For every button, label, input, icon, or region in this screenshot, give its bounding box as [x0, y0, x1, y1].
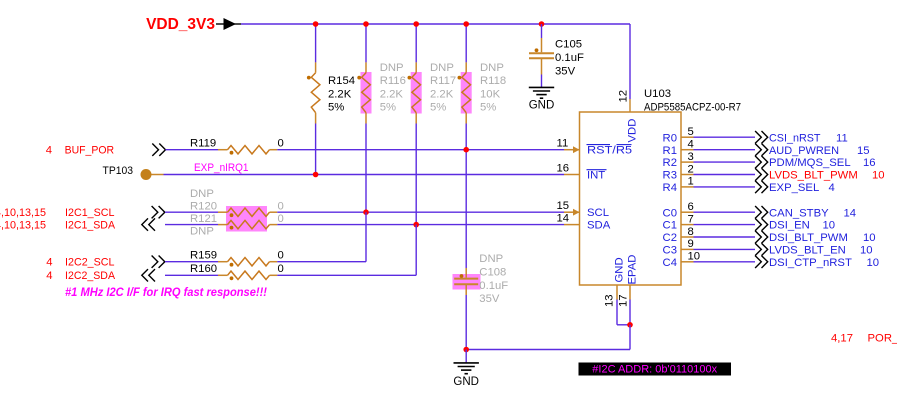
- svg-text:0: 0: [278, 213, 284, 225]
- svg-text:GND: GND: [529, 99, 555, 111]
- svg-text:BUF_POR: BUF_POR: [65, 145, 115, 157]
- svg-text:10: 10: [688, 251, 701, 263]
- svg-text:RST/R5: RST/R5: [587, 144, 632, 156]
- svg-text:C1: C1: [663, 220, 677, 232]
- svg-text:10: 10: [867, 257, 880, 269]
- svg-text:C0: C0: [663, 207, 677, 219]
- svg-text:#I2C ADDR: 0b'0110100x: #I2C ADDR: 0b'0110100x: [592, 364, 717, 376]
- svg-text:5%: 5%: [480, 102, 496, 114]
- svg-text:5: 5: [688, 126, 694, 138]
- svg-text:R117: R117: [430, 75, 456, 87]
- svg-text:35V: 35V: [555, 65, 576, 77]
- svg-text:11: 11: [557, 138, 569, 150]
- svg-text:R119: R119: [190, 137, 216, 149]
- svg-text:15: 15: [557, 200, 570, 212]
- svg-text:10K: 10K: [480, 88, 501, 100]
- svg-text:DSI_EN: DSI_EN: [769, 220, 810, 232]
- svg-text:I2C1_SCL: I2C1_SCL: [65, 207, 115, 219]
- svg-text:ADP5585ACPZ-00-R7: ADP5585ACPZ-00-R7: [644, 101, 741, 113]
- svg-text:POR_B: POR_B: [868, 333, 897, 345]
- svg-text:2.2K: 2.2K: [328, 88, 352, 100]
- svg-text:EXP_SEL: EXP_SEL: [769, 182, 819, 194]
- svg-text:4: 4: [46, 257, 52, 269]
- svg-text:VDD: VDD: [627, 119, 639, 143]
- svg-text:DNP: DNP: [479, 253, 503, 265]
- svg-text:4: 4: [688, 139, 694, 151]
- svg-text:I2C2_SDA: I2C2_SDA: [65, 270, 115, 282]
- svg-text:4,10,13,15: 4,10,13,15: [0, 207, 46, 219]
- svg-text:14: 14: [844, 207, 857, 219]
- svg-text:R0: R0: [663, 132, 677, 144]
- svg-text:INT: INT: [587, 169, 605, 181]
- svg-text:DNP: DNP: [190, 225, 214, 237]
- svg-text:C2: C2: [663, 232, 677, 244]
- svg-text:13: 13: [604, 294, 616, 307]
- svg-text:4: 4: [829, 182, 835, 194]
- svg-text:DSI_CTP_nRST: DSI_CTP_nRST: [769, 257, 852, 269]
- svg-text:2.2K: 2.2K: [380, 88, 404, 100]
- svg-text:R2: R2: [663, 157, 677, 169]
- svg-text:GND: GND: [453, 376, 479, 388]
- svg-text:8: 8: [688, 226, 694, 238]
- svg-text:C108: C108: [479, 267, 506, 279]
- svg-text:PDM/MQS_SEL: PDM/MQS_SEL: [769, 157, 851, 169]
- svg-text:16: 16: [863, 157, 876, 169]
- svg-text:0.1uF: 0.1uF: [555, 52, 584, 64]
- svg-text:R4: R4: [663, 182, 677, 194]
- svg-text:R120: R120: [190, 201, 217, 213]
- svg-text:17: 17: [618, 294, 630, 307]
- svg-text:0: 0: [278, 201, 284, 213]
- svg-text:LVDS_BLT_PWM: LVDS_BLT_PWM: [769, 170, 858, 182]
- svg-text:10: 10: [860, 245, 873, 257]
- svg-text:TP103: TP103: [103, 165, 134, 177]
- svg-text:DNP: DNP: [190, 188, 214, 200]
- svg-text:0: 0: [278, 263, 284, 275]
- svg-text:12: 12: [618, 90, 630, 103]
- svg-text:I2C1_SDA: I2C1_SDA: [65, 219, 115, 231]
- svg-text:R160: R160: [190, 263, 217, 275]
- svg-text:0: 0: [278, 137, 284, 149]
- svg-text:VDD_3V3: VDD_3V3: [146, 16, 215, 33]
- svg-text:2: 2: [688, 163, 694, 175]
- svg-text:SCL: SCL: [587, 207, 609, 219]
- svg-text:R121: R121: [190, 213, 217, 225]
- svg-text:#1 MHz I2C I/F for IRQ fast re: #1 MHz I2C I/F for IRQ fast response!!!: [65, 287, 267, 299]
- svg-text:0: 0: [278, 249, 284, 261]
- svg-text:DNP: DNP: [480, 62, 504, 74]
- svg-text:4,10,13,15: 4,10,13,15: [0, 219, 46, 231]
- svg-text:10: 10: [823, 220, 836, 232]
- svg-text:0.1uF: 0.1uF: [479, 280, 508, 292]
- svg-text:2.2K: 2.2K: [430, 88, 454, 100]
- svg-text:5%: 5%: [380, 102, 396, 114]
- svg-text:CSI_nRST: CSI_nRST: [769, 132, 821, 144]
- svg-text:DNP: DNP: [380, 62, 404, 74]
- svg-text:C3: C3: [663, 245, 677, 257]
- svg-text:C4: C4: [663, 257, 677, 269]
- svg-text:GND: GND: [614, 257, 626, 282]
- svg-text:R159: R159: [190, 249, 217, 261]
- svg-text:6: 6: [688, 201, 694, 213]
- svg-text:DSI_BLT_PWM: DSI_BLT_PWM: [769, 232, 848, 244]
- svg-text:10: 10: [872, 170, 885, 182]
- svg-text:R118: R118: [480, 75, 506, 87]
- svg-text:AUD_PWREN: AUD_PWREN: [769, 145, 839, 157]
- svg-text:15: 15: [857, 145, 870, 157]
- svg-text:4,17: 4,17: [831, 333, 853, 345]
- svg-text:14: 14: [557, 212, 570, 224]
- svg-text:11: 11: [836, 132, 848, 144]
- svg-text:C105: C105: [555, 39, 582, 51]
- svg-text:R1: R1: [663, 145, 677, 157]
- svg-text:CAN_STBY: CAN_STBY: [769, 207, 829, 219]
- svg-text:R3: R3: [663, 170, 677, 182]
- svg-text:EPAD: EPAD: [627, 255, 639, 285]
- svg-text:3: 3: [688, 151, 694, 163]
- svg-text:I2C2_SCL: I2C2_SCL: [65, 257, 115, 269]
- svg-text:9: 9: [688, 238, 694, 250]
- svg-text:16: 16: [557, 162, 570, 174]
- svg-text:EXP_nIRQ1: EXP_nIRQ1: [194, 162, 249, 174]
- svg-text:5%: 5%: [430, 102, 446, 114]
- svg-text:35V: 35V: [479, 293, 500, 305]
- svg-text:LVDS_BLT_EN: LVDS_BLT_EN: [769, 245, 846, 257]
- svg-text:4: 4: [46, 270, 52, 282]
- svg-text:10: 10: [863, 232, 876, 244]
- svg-text:4: 4: [46, 145, 52, 157]
- svg-text:7: 7: [688, 213, 694, 225]
- svg-text:R154: R154: [328, 75, 355, 87]
- svg-text:5%: 5%: [328, 102, 344, 114]
- svg-text:DNP: DNP: [430, 62, 454, 74]
- svg-text:U103: U103: [644, 88, 671, 100]
- svg-text:SDA: SDA: [587, 219, 611, 231]
- svg-text:R116: R116: [380, 75, 406, 87]
- svg-text:1: 1: [688, 176, 694, 188]
